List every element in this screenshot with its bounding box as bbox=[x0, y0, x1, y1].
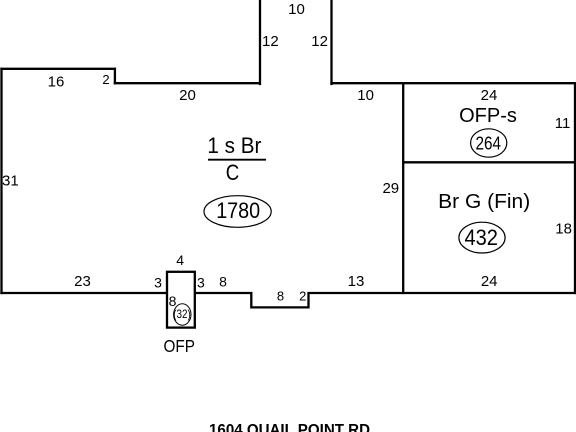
svg-text:432: 432 bbox=[464, 225, 498, 250]
svg-text:31: 31 bbox=[2, 172, 19, 189]
svg-text:10: 10 bbox=[357, 87, 374, 104]
svg-text:2: 2 bbox=[299, 288, 306, 303]
svg-text:11: 11 bbox=[555, 115, 571, 132]
svg-text:24: 24 bbox=[481, 87, 498, 104]
svg-text:8: 8 bbox=[277, 288, 284, 303]
svg-text:29: 29 bbox=[382, 180, 399, 197]
svg-text:12: 12 bbox=[262, 33, 279, 50]
svg-text:20: 20 bbox=[179, 87, 196, 104]
svg-text:4: 4 bbox=[176, 252, 184, 268]
svg-text:18: 18 bbox=[555, 221, 572, 238]
svg-text:3: 3 bbox=[154, 275, 162, 291]
svg-text:8: 8 bbox=[219, 274, 227, 290]
svg-text:2: 2 bbox=[102, 72, 109, 87]
svg-text:3: 3 bbox=[197, 275, 205, 291]
svg-text:1 s Br: 1 s Br bbox=[207, 133, 261, 158]
svg-text:OFP: OFP bbox=[163, 336, 195, 356]
svg-text:23: 23 bbox=[74, 273, 91, 290]
svg-text:OFP-s: OFP-s bbox=[459, 105, 517, 127]
svg-text:10: 10 bbox=[288, 1, 305, 18]
svg-text:C: C bbox=[226, 160, 240, 185]
svg-text:16: 16 bbox=[48, 74, 65, 91]
svg-text:(32): (32) bbox=[173, 307, 191, 321]
svg-text:1780: 1780 bbox=[216, 198, 260, 223]
svg-text:13: 13 bbox=[348, 273, 365, 290]
svg-text:264: 264 bbox=[476, 134, 502, 154]
svg-text:24: 24 bbox=[481, 273, 498, 290]
svg-text:Br G (Fin): Br G (Fin) bbox=[438, 191, 530, 213]
svg-text:1604 QUAIL POINT RD: 1604 QUAIL POINT RD bbox=[209, 422, 370, 432]
svg-text:12: 12 bbox=[311, 33, 328, 50]
